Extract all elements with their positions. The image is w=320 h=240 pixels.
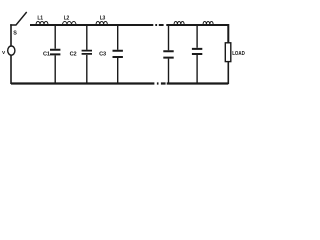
svg-text:L1: L1 [37, 15, 43, 21]
svg-text:S: S [13, 31, 17, 37]
svg-text:C1: C1 [43, 51, 50, 57]
svg-text:C2: C2 [70, 51, 77, 57]
svg-text:LOAD: LOAD [232, 51, 245, 57]
svg-text:L3: L3 [100, 15, 106, 21]
svg-text:L2: L2 [64, 15, 70, 21]
svg-text:C3: C3 [99, 51, 106, 57]
